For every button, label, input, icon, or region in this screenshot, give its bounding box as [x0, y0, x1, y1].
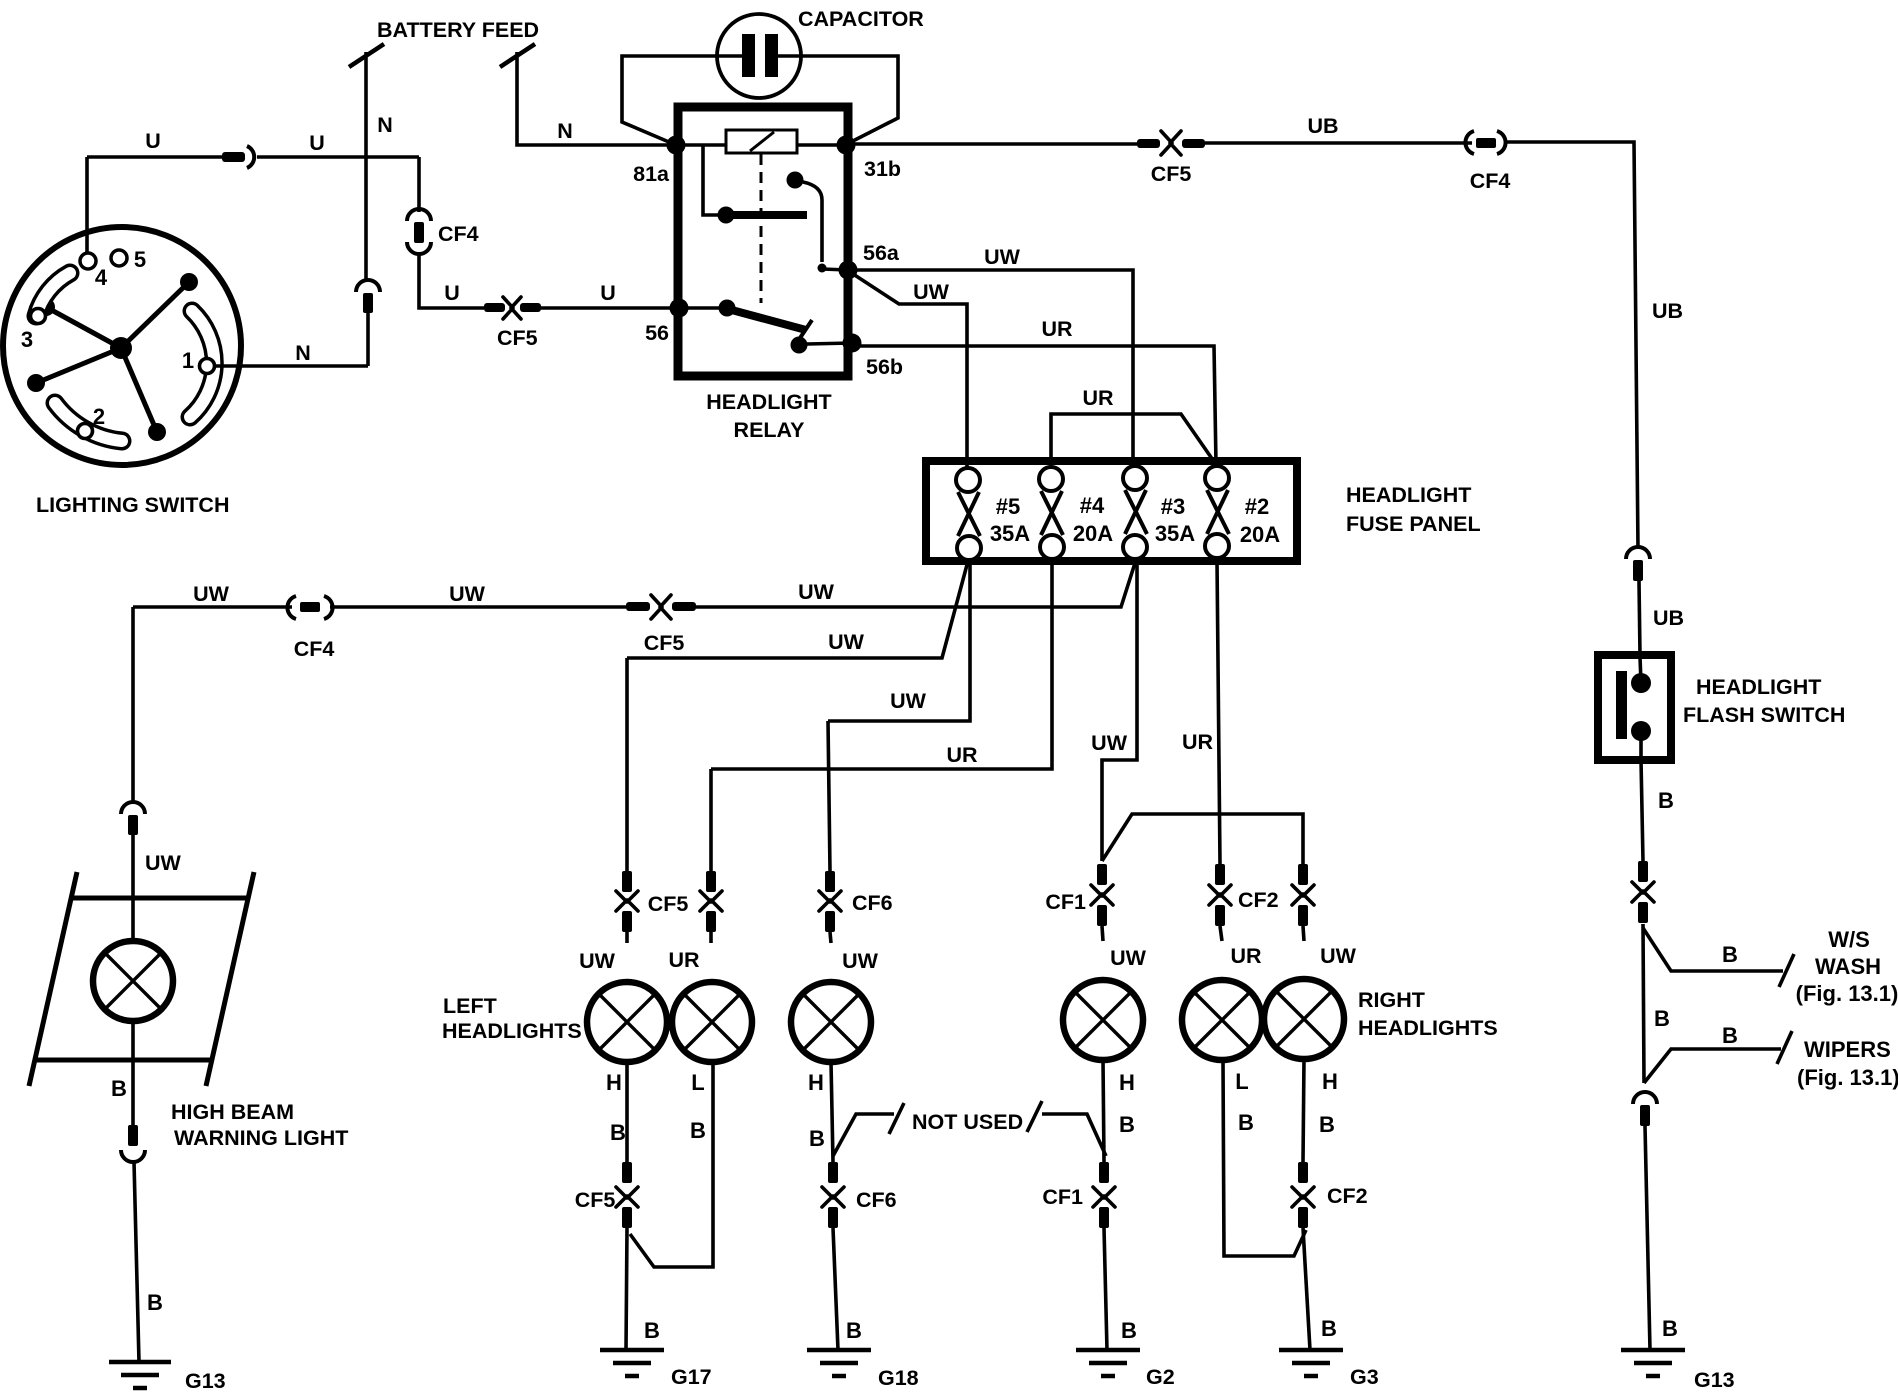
right headlight H lamp: [1063, 980, 1143, 1060]
svg-text:LIGHTING SWITCH: LIGHTING SWITCH: [36, 493, 229, 517]
wire UW from CF4 to CF5: [330, 605, 626, 609]
svg-text:LEFT: LEFT: [443, 994, 497, 1018]
relay upper contact dot: [787, 172, 804, 189]
svg-text:UW: UW: [1091, 731, 1128, 755]
svg-text:B: B: [809, 1126, 825, 1151]
wire B from right H2 lamp: [1303, 1059, 1304, 1162]
wire B main down right column: [1643, 924, 1644, 1083]
relay wire from 81a line to armature pivot: [703, 146, 719, 215]
connector bullet on U wire: [222, 152, 245, 162]
battery feed 1 wire N down: [364, 52, 368, 282]
wire U corner down to CF4: [417, 157, 421, 212]
svg-text:CF1: CF1: [1042, 1185, 1083, 1209]
svg-text:81a: 81a: [633, 162, 670, 186]
svg-text:RELAY: RELAY: [734, 418, 805, 442]
wire UW to right H lamp: [1102, 926, 1103, 941]
lighting switch body: [3, 227, 241, 465]
wire UW left headlight H column: [625, 658, 629, 871]
wire UW branch to right H second lamp: [1102, 814, 1303, 864]
lighting switch contact slot 2: [55, 403, 122, 441]
wire UW from 56a to fuse 5 top: [850, 272, 967, 468]
relay armature bar: [726, 211, 807, 219]
svg-text:G2: G2: [1146, 1365, 1175, 1389]
svg-text:56: 56: [645, 321, 669, 345]
battery feed 1 wire N lower part: [366, 313, 370, 366]
connector bullet below warning lamp: [128, 1125, 138, 1146]
svg-text:B: B: [1658, 788, 1674, 813]
svg-text:HEADLIGHT: HEADLIGHT: [706, 390, 831, 414]
connector arc on battery feed wire: [356, 280, 380, 292]
svg-text:U: U: [600, 281, 616, 305]
connector CF5 left bullet: [484, 303, 505, 312]
svg-text:B: B: [1321, 1316, 1337, 1341]
connector CF4 right arc (UB line): [1497, 131, 1506, 154]
svg-text:CF6: CF6: [856, 1188, 897, 1212]
wire UW to right H2 lamp: [1303, 926, 1304, 941]
flash switch internal wires: [1640, 657, 1641, 760]
svg-text:UW: UW: [579, 949, 616, 973]
W/S wash end slash: [1779, 954, 1794, 987]
lighting switch rotor arm to bottom: [121, 348, 166, 441]
svg-text:CF4: CF4: [1470, 169, 1511, 193]
connector CF5 bullet-X-bullet on left H column: [616, 871, 638, 932]
connector CF6 lower on middle column: [822, 1162, 844, 1228]
svg-text:U: U: [309, 131, 325, 155]
wire B from right L lamp loop: [1223, 1060, 1306, 1256]
relay armature pivot dot: [718, 207, 735, 224]
NOT USED stub line: [833, 1114, 894, 1156]
connector CF2 upper on right L column: [1209, 864, 1231, 926]
wire B from warning lamp down: [131, 1021, 135, 1125]
ground G3: [1279, 1350, 1343, 1376]
wire UW fuse 5 bottom diagonal to left pair feed: [627, 561, 968, 658]
connector CF6 upper on middle column: [819, 871, 841, 932]
svg-text:1: 1: [182, 348, 194, 373]
svg-text:CF5: CF5: [1151, 162, 1192, 186]
svg-text:4: 4: [95, 265, 108, 290]
svg-text:B: B: [1121, 1318, 1137, 1343]
svg-text:L: L: [1235, 1069, 1248, 1094]
svg-text:G18: G18: [878, 1366, 919, 1390]
lighting switch rotor arm to lower-left: [27, 348, 121, 392]
headlight fuse panel box: [926, 461, 1297, 561]
wire UR left headlight L column upper: [709, 769, 713, 871]
svg-text:56a: 56a: [863, 241, 900, 265]
svg-text:G17: G17: [671, 1365, 712, 1389]
svg-text:UW: UW: [890, 689, 927, 713]
wire UW fuse 3 bottom down with jog: [1102, 561, 1137, 861]
svg-text:5: 5: [134, 247, 146, 272]
node 31b: [837, 136, 856, 155]
NOT USED right slash: [1027, 1101, 1042, 1132]
svg-text:RIGHT: RIGHT: [1358, 988, 1425, 1012]
wire UR to right L lamp: [1220, 926, 1222, 941]
svg-text:CF6: CF6: [852, 891, 893, 915]
svg-text:B: B: [1654, 1006, 1670, 1031]
connector CF5 right bullet (UB line): [1182, 139, 1205, 148]
svg-text:3: 3: [21, 327, 33, 352]
svg-text:WARNING LIGHT: WARNING LIGHT: [174, 1126, 348, 1150]
svg-text:HEADLIGHTS: HEADLIGHTS: [442, 1019, 582, 1043]
svg-text:#4: #4: [1080, 493, 1105, 518]
wire B below flash switch: [1641, 760, 1643, 861]
connector CF4 upper arc: [407, 209, 431, 221]
svg-text:NOT USED: NOT USED: [912, 1110, 1023, 1134]
connector bullet on UB vertical: [1633, 560, 1643, 581]
connector arc below warning lamp: [121, 1150, 145, 1162]
fuse #4: [1039, 467, 1064, 559]
relay small node dot: [818, 264, 827, 273]
relay wire contact to 56b: [807, 343, 852, 344]
connector CF4 lower arc: [407, 242, 431, 254]
svg-text:B: B: [111, 1076, 127, 1101]
ground G13 left: [109, 1362, 171, 1388]
headlight flash switch box: [1598, 655, 1671, 760]
connector CF4 bar (UB line): [1476, 138, 1496, 148]
svg-text:CF1: CF1: [1045, 890, 1086, 914]
svg-text:(Fig. 13.1): (Fig. 13.1): [1797, 1065, 1898, 1090]
node 56: [670, 299, 689, 318]
capacitor right lead: [801, 56, 898, 144]
lighting switch slot 1 contact circle (terminal 1): [200, 359, 215, 374]
node 81a: [667, 136, 686, 155]
connector CF4 left arc (UW line): [287, 596, 296, 619]
wire UB from CF5 to CF4: [1205, 141, 1472, 145]
right headlight L lamp: [1182, 980, 1262, 1060]
svg-text:CF5: CF5: [575, 1188, 616, 1212]
connector bullet on battery feed wire: [363, 293, 373, 313]
ground G13 right: [1621, 1350, 1685, 1376]
fuse #5: [956, 468, 981, 560]
svg-text:WIPERS: WIPERS: [1804, 1037, 1891, 1062]
wire U from CF4 down and right to CF5: [419, 252, 484, 308]
svg-text:FUSE PANEL: FUSE PANEL: [1346, 512, 1481, 536]
svg-text:B: B: [1662, 1316, 1678, 1341]
wire UW from CF5 to fuse 3 bottom: [696, 563, 1135, 607]
capacitor left lead: [622, 56, 717, 145]
relay coil dashed actuator line: [760, 154, 763, 303]
NOT USED left slash: [889, 1103, 904, 1134]
battery feed 2 wire N down and right to relay 81a: [517, 52, 676, 145]
wire B middle column to ground G18: [833, 1228, 838, 1350]
lighting switch rotor arm to upper-left: [37, 298, 121, 348]
svg-text:CF4: CF4: [294, 637, 335, 661]
svg-text:20A: 20A: [1073, 521, 1113, 546]
svg-text:UR: UR: [1041, 317, 1073, 341]
svg-text:UW: UW: [1110, 946, 1147, 970]
svg-text:B: B: [644, 1318, 660, 1343]
svg-text:N: N: [557, 119, 573, 143]
connector socket arc on U wire: [247, 146, 254, 168]
high beam warning light frame (parallelogram): [29, 872, 254, 1086]
svg-text:UR: UR: [1230, 944, 1262, 968]
relay moving contact dot: [791, 337, 808, 354]
connector arc on UB vertical: [1626, 547, 1650, 559]
svg-text:HIGH BEAM: HIGH BEAM: [171, 1100, 294, 1124]
wire UR fuse 2 bottom down: [1217, 561, 1220, 864]
svg-text:UW: UW: [913, 280, 950, 304]
connector arc on right column lower: [1633, 1092, 1657, 1104]
svg-text:H: H: [1119, 1070, 1135, 1095]
high beam warning lamp: [93, 941, 173, 1021]
wire B from right H lamp: [1103, 1060, 1104, 1162]
svg-text:H: H: [1322, 1069, 1338, 1094]
svg-text:N: N: [377, 113, 393, 137]
relay switch blade end tick: [800, 320, 812, 338]
svg-text:(Fig. 13.1): (Fig. 13.1): [1796, 981, 1898, 1006]
relay wire node to 56a: [822, 269, 848, 270]
wire UW to left H lamp: [625, 932, 629, 943]
connector CF5 right bullet (UW line): [672, 602, 696, 611]
connector CF5 X (UB line): [1161, 131, 1181, 155]
svg-text:B: B: [1722, 1023, 1738, 1048]
wire UR linking fuse 4 top and fuse 2 top: [1051, 414, 1215, 466]
wire B from left L lamp loop: [630, 1062, 713, 1267]
connector CF4 bar: [414, 222, 424, 243]
svg-text:B: B: [846, 1318, 862, 1343]
connector X on left L column: [700, 871, 722, 932]
connector CF4 bar (UW line): [300, 602, 320, 612]
relay upper contact wire to 56a: [803, 182, 822, 262]
svg-text:56b: 56b: [866, 355, 903, 379]
wire UW from 56a to fuse 3 top: [848, 270, 1133, 466]
svg-text:UW: UW: [798, 580, 835, 604]
left headlight H lamp: [587, 982, 667, 1062]
svg-text:N: N: [295, 341, 311, 365]
wire U from CF5 to relay pin 56: [541, 306, 679, 310]
battery feed 1 cut slash: [349, 44, 384, 67]
svg-text:WASH: WASH: [1815, 954, 1881, 979]
svg-text:B: B: [1119, 1112, 1135, 1137]
wire B right H column to ground G2: [1104, 1228, 1107, 1350]
flash switch lower contact dot: [1631, 721, 1651, 741]
svg-text:HEADLIGHT: HEADLIGHT: [1346, 483, 1471, 507]
relay switch pivot dot: [719, 300, 736, 317]
ground G18: [807, 1350, 871, 1376]
lighting switch terminal 4 circle: [80, 253, 96, 269]
headlight relay box: [678, 107, 848, 376]
svg-text:CF5: CF5: [648, 892, 689, 916]
wire B right H2 column to ground G3: [1303, 1228, 1310, 1350]
node 56b: [843, 334, 862, 353]
svg-text:H: H: [808, 1070, 824, 1095]
wire B left column to ground G17: [626, 1228, 627, 1350]
battery feed 2 cut slash: [500, 44, 535, 67]
svg-text:UW: UW: [1320, 944, 1357, 968]
svg-text:W/S: W/S: [1828, 927, 1870, 952]
node 56a: [839, 261, 858, 280]
wire B from left H lamp: [625, 1062, 629, 1162]
svg-text:UR: UR: [668, 948, 700, 972]
connector arc on high-beam wire: [121, 802, 145, 814]
svg-text:HEADLIGHT: HEADLIGHT: [1696, 675, 1821, 699]
lighting switch rotor hub: [110, 337, 132, 359]
svg-text:#5: #5: [996, 494, 1020, 519]
connector CF1 lower on right H column: [1093, 1162, 1115, 1228]
lighting switch slot 2 contact circle: [78, 424, 93, 439]
svg-text:U: U: [145, 129, 161, 153]
capacitor plate left: [742, 34, 755, 77]
relay switch blade: [728, 309, 806, 330]
svg-text:CF5: CF5: [497, 326, 538, 350]
svg-text:UB: UB: [1653, 606, 1684, 630]
connector upper on right H2 column: [1292, 864, 1314, 926]
wire N from switch terminal 1: [214, 364, 368, 368]
lighting switch slot 3 contact circle: [31, 309, 46, 324]
svg-text:G13: G13: [185, 1369, 226, 1392]
svg-text:U: U: [444, 281, 460, 305]
svg-text:UB: UB: [1652, 299, 1683, 323]
relay internal wire 81a to 31b: [676, 143, 846, 147]
svg-text:UW: UW: [984, 245, 1021, 269]
svg-text:G13: G13: [1694, 1368, 1735, 1392]
svg-text:CF4: CF4: [438, 222, 479, 246]
wire UR from 56b to fuse 2 top: [854, 346, 1216, 464]
svg-text:B: B: [1238, 1110, 1254, 1135]
connector CF5 X: [503, 297, 521, 319]
flash switch inner bar: [1616, 671, 1627, 739]
connector CF5 left bullet (UW line): [626, 602, 650, 611]
fuse #3: [1123, 466, 1147, 559]
connector CF2 lower on right H2 column: [1292, 1162, 1314, 1228]
svg-text:35A: 35A: [990, 521, 1030, 546]
wire B from middle lamp: [831, 1062, 833, 1162]
ground G2: [1076, 1350, 1140, 1376]
left headlight L lamp: [672, 982, 752, 1062]
svg-text:B: B: [690, 1118, 706, 1143]
wire B to ground G13: [134, 1162, 139, 1362]
connector CF5 X (UW line): [651, 595, 671, 619]
right headlight H2 lamp: [1264, 979, 1344, 1059]
wire B fork to wipers: [1644, 1049, 1781, 1083]
svg-text:UW: UW: [828, 630, 865, 654]
svg-text:31b: 31b: [864, 157, 901, 181]
connector CF1 upper on right H column: [1091, 864, 1113, 926]
svg-text:UW: UW: [842, 949, 879, 973]
svg-text:H: H: [606, 1070, 622, 1095]
wire B fork to W/S wash: [1643, 928, 1783, 971]
svg-text:20A: 20A: [1240, 522, 1280, 547]
svg-text:HEADLIGHTS: HEADLIGHTS: [1358, 1016, 1498, 1040]
svg-text:UR: UR: [1182, 730, 1214, 754]
svg-text:UR: UR: [1082, 386, 1114, 410]
svg-text:CF2: CF2: [1238, 888, 1279, 912]
connector bullet on high-beam wire: [128, 815, 138, 835]
wipers end slash: [1777, 1031, 1792, 1064]
svg-text:#3: #3: [1161, 494, 1185, 519]
wire U horizontal to connector: [87, 155, 222, 159]
NOT USED stub line right: [1042, 1114, 1106, 1156]
relay coil: [726, 130, 797, 153]
svg-text:35A: 35A: [1155, 521, 1195, 546]
lighting switch contact slot 1: [190, 311, 214, 417]
lighting switch rotor arm to upper-right: [121, 273, 198, 348]
connector CF5 left bullet (UB line): [1137, 139, 1160, 148]
svg-text:UW: UW: [145, 851, 182, 875]
wire UB from CF4 to corner and down: [1507, 142, 1638, 549]
svg-text:UR: UR: [946, 743, 978, 767]
ground G17: [600, 1350, 664, 1376]
svg-text:BATTERY FEED: BATTERY FEED: [377, 18, 539, 42]
wire UR fuse 4 bottom to left headlight L column: [711, 561, 1052, 769]
wire UW main run from high-beam column to CF4: [133, 605, 292, 609]
svg-text:2: 2: [93, 404, 105, 429]
svg-text:CAPACITOR: CAPACITOR: [798, 7, 924, 31]
connector CF4 left arc (UB line): [1465, 131, 1474, 154]
wire B to ground G13 right: [1645, 1126, 1650, 1350]
connector CF5 right bullet: [520, 303, 541, 312]
capacitor body circle: [717, 14, 801, 98]
wire UW middle headlight column upper: [828, 721, 830, 871]
svg-text:UW: UW: [193, 582, 230, 606]
wire UW into warning lamp: [131, 835, 135, 943]
svg-text:L: L: [691, 1070, 704, 1095]
lighting switch terminal 5 circle: [111, 250, 127, 266]
svg-text:B: B: [147, 1290, 163, 1315]
svg-text:B: B: [1722, 942, 1738, 967]
svg-text:FLASH SWITCH: FLASH SWITCH: [1683, 703, 1845, 727]
capacitor inner leads: [717, 54, 801, 58]
wire UW to middle lamp: [830, 932, 831, 943]
capacitor plate right: [765, 34, 778, 77]
wire UB from 31b to CF5: [846, 142, 1137, 146]
wire UW fuse 5 bottom straight down: [828, 561, 970, 721]
wire UW high-beam column down: [131, 607, 135, 804]
svg-text:B: B: [1319, 1112, 1335, 1137]
lighting switch contact slot 3: [36, 273, 70, 316]
svg-text:UB: UB: [1307, 114, 1338, 138]
connector CF4 right arc (UW line): [324, 596, 333, 619]
flash switch upper contact dot: [1631, 673, 1651, 693]
wire U continues to corner: [257, 155, 419, 159]
fuse #2: [1205, 466, 1229, 558]
svg-text:CF5: CF5: [644, 631, 685, 655]
wire UR to left L lamp: [709, 932, 713, 943]
connector bullet-X-bullet on right column: [1632, 861, 1654, 923]
svg-text:UW: UW: [449, 582, 486, 606]
svg-text:B: B: [610, 1120, 626, 1145]
wire U from terminal 4 up: [85, 157, 89, 253]
relay wire 56 to switch pivot: [679, 306, 719, 310]
connector bullet on right column lower: [1640, 1105, 1650, 1126]
wire UB to flash switch: [1639, 581, 1640, 655]
svg-text:#2: #2: [1245, 494, 1269, 519]
middle headlight H lamp: [791, 982, 871, 1062]
svg-text:CF2: CF2: [1327, 1184, 1368, 1208]
svg-text:G3: G3: [1350, 1365, 1379, 1389]
connector CF5 lower on left H column: [616, 1162, 638, 1228]
